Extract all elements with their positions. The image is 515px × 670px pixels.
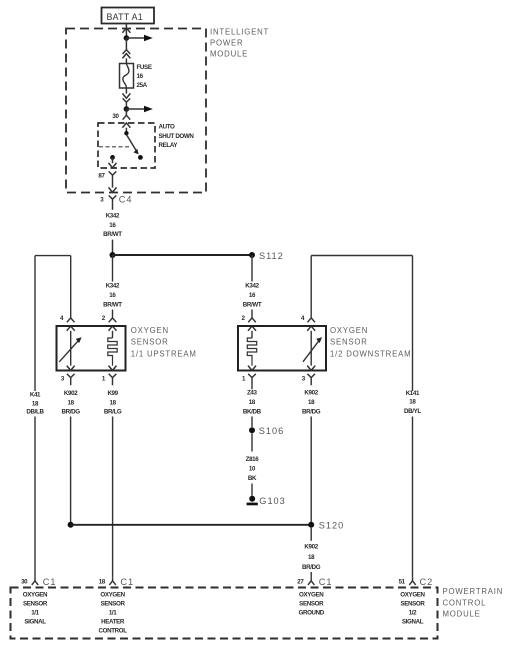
svg-text:RELAY: RELAY [159,142,179,149]
wire to pin 27 [310,572,312,577]
svg-text:SENSOR: SENSOR [131,338,169,347]
svg-text:C1: C1 [43,577,57,587]
trunk wire to splice S112 [113,254,253,256]
svg-text:C1: C1 [319,577,333,587]
PCM function oxygen sensor 1/1 heater control [99,591,128,634]
right sensor pin 2 connector [241,315,256,331]
svg-text:18: 18 [99,579,106,586]
svg-text:K902: K902 [64,390,78,397]
label OXYGEN SENSOR 1/2 DOWNSTREAM [330,326,411,358]
wire K99 vertical lower [112,417,114,578]
intelligent power module dashed box [66,29,206,193]
boundary exit arrow at C4 [109,187,117,192]
PCM pin 18 connector C1 [99,577,134,587]
fuse value label [137,64,152,89]
wire fuse to inline connector [125,88,127,94]
svg-text:DB/YL: DB/YL [404,408,421,415]
svg-text:BR/WT: BR/WT [103,301,122,308]
svg-text:G103: G103 [259,496,285,506]
wire node to inline connector [125,38,127,50]
wire label K99 18 BR/LG [104,390,122,416]
svg-text:BR/WT: BR/WT [243,301,262,308]
svg-text:HEATER: HEATER [101,618,125,625]
svg-text:BK/DB: BK/DB [243,409,262,416]
svg-text:SENSOR: SENSOR [400,600,425,607]
wire junction down to left sensor pin 2 (upper seg) [112,255,114,282]
svg-text:BR/DG: BR/DG [302,564,321,571]
svg-text:CONTROL: CONTROL [99,627,128,634]
PCM function oxygen sensor 1/2 signal [400,591,425,625]
svg-text:10: 10 [249,465,256,472]
wire BATT A1 down into module [125,24,127,39]
svg-text:27: 27 [297,579,304,586]
svg-text:SENSOR: SENSOR [23,600,48,607]
wire label Z43 18 BK/DB [243,389,262,415]
oxygen sensor 1/1 upstream box [57,326,126,371]
trunk wire to splice S120 [71,524,312,526]
wire label K342 16 BR/WT (upper) [103,212,122,238]
svg-text:Z816: Z816 [246,456,260,463]
label INTELLIGENT POWER MODULE [210,27,269,58]
svg-text:S106: S106 [259,426,284,436]
wire label K342 16 BR/WT (right lower) [243,282,262,308]
svg-text:FUSE: FUSE [137,64,152,71]
battery feed box BATT A1 [102,8,155,24]
wire K902 left to splice junction [70,417,72,525]
wire K41 vertical lower [34,417,36,578]
wire 87 contact to relay edge [112,157,114,163]
relay common terminal node [124,131,128,135]
wire label K902 18 BR/DG (ground leg) [302,544,321,571]
relay coil linkage (dashed) [99,146,130,148]
wire label K902 18 BR/DG (left) [62,390,81,416]
svg-text:BATT A1: BATT A1 [107,12,144,22]
svg-text:C4: C4 [119,194,133,204]
wire right pin 4 vertical [310,256,312,318]
svg-text:Z43: Z43 [247,389,258,396]
left sensor sensing element (variable resistor) [59,331,81,366]
relay NO contact node [138,155,143,160]
right sensor pin 3 connector [302,366,315,386]
right sensor sensing element (variable resistor) [303,331,322,366]
wire junction to relay pin 30 [125,109,127,115]
wire K41 vertical upper [34,256,36,391]
wire to lower junction [125,105,127,109]
wire S120 down [310,528,312,541]
svg-text:GROUND: GROUND [298,609,324,616]
fuse F? 25A [120,64,134,89]
svg-text:POWER: POWER [210,39,243,48]
svg-text:C1: C1 [120,577,134,587]
svg-text:K902: K902 [304,389,318,396]
svg-text:OXYGEN: OXYGEN [100,591,125,598]
wire pin 4 vertical [70,256,72,318]
svg-text:SENSOR: SENSOR [101,600,126,607]
right sensor heater element [247,331,256,366]
svg-text:1/1 UPSTREAM: 1/1 UPSTREAM [131,349,197,358]
left sensor pin 1 connector [102,366,117,386]
wire pin 87 to module boundary [112,179,114,187]
svg-text:25A: 25A [137,82,148,89]
left sensor pin 4 connector [60,315,75,331]
powertrain control module dashed box [11,588,438,639]
wire K141 vertical upper [412,256,414,392]
svg-text:OXYGEN: OXYGEN [23,591,48,598]
wire label K902 18 BR/DG (right) [302,389,321,415]
svg-text:SIGNAL: SIGNAL [402,618,424,625]
wire loop to right sensor pin 4 (horizontal) [311,255,412,257]
PCM pin 51 connector C2 [399,577,434,587]
svg-text:16: 16 [109,222,116,229]
ground G103 [247,496,258,506]
wire to ground [251,484,253,496]
oxygen sensor 1/2 downstream box [238,326,326,371]
wire seg to pin 2 [112,310,114,318]
wire label K342 16 BR/WT (left lower) [103,282,122,308]
svg-text:SIGNAL: SIGNAL [24,618,46,625]
svg-text:30: 30 [112,113,119,120]
junction node left of S112 [110,252,116,258]
svg-text:18: 18 [68,400,75,407]
svg-text:C2: C2 [420,577,434,587]
left sensor pin 3 connector [61,366,75,386]
svg-text:OXYGEN: OXYGEN [330,326,368,335]
svg-text:BR/DG: BR/DG [62,409,81,416]
svg-text:OXYGEN: OXYGEN [299,591,324,598]
wire label Z816 10 BK [246,456,260,482]
right sensor pin 1 connector [242,366,256,386]
left sensor pin 2 connector [102,315,117,331]
junction node above relay [124,106,130,112]
svg-text:K141: K141 [406,390,420,397]
svg-text:CONTROL: CONTROL [443,598,487,607]
wire K902 right to splice S120 [310,417,312,525]
branch arrow to other circuits (lower) [126,106,152,113]
svg-text:SHUT DOWN: SHUT DOWN [159,133,195,140]
svg-text:BK: BK [248,475,257,482]
svg-text:OXYGEN: OXYGEN [131,326,169,335]
wire K141 vertical lower [412,417,414,578]
PCM pin 27 connector C1 [297,577,332,587]
svg-text:16: 16 [109,292,116,299]
label POWERTRAIN CONTROL MODULE [443,587,504,618]
svg-text:POWERTRAIN: POWERTRAIN [443,587,504,596]
svg-text:OXYGEN: OXYGEN [400,591,425,598]
junction node on K902 left [68,522,74,528]
relay 87 contact node [110,155,115,160]
svg-text:16: 16 [137,73,144,80]
splice S106 [249,427,255,433]
svg-text:K342: K342 [245,282,259,289]
svg-text:30: 30 [21,579,28,586]
PCM pin 30 connector C1 [21,577,56,587]
svg-text:MODULE: MODULE [210,50,248,59]
wire Z43 to splice S106 [251,385,253,427]
branch arrow to other circuits (upper) [126,35,152,42]
left sensor heater element [108,331,117,366]
svg-text:K342: K342 [106,282,120,289]
svg-text:AUTO: AUTO [159,123,176,130]
pin 87 connector fork [109,171,117,179]
svg-text:18: 18 [308,554,315,561]
svg-text:S112: S112 [259,251,284,261]
svg-text:18: 18 [110,400,117,407]
svg-text:1/2 DOWNSTREAM: 1/2 DOWNSTREAM [330,349,411,358]
svg-text:INTELLIGENT: INTELLIGENT [210,27,269,36]
wire S112 down to right sensor pin 2 (upper seg) [251,255,253,282]
wire loop to left sensor pin 4 (horizontal) [35,255,71,257]
svg-text:18: 18 [32,401,39,408]
label OXYGEN SENSOR 1/1 UPSTREAM [131,326,197,358]
relay pin 30 connector [122,115,130,128]
svg-text:DB/LB: DB/LB [26,409,44,416]
wire label to splice junction [112,240,114,255]
auto shut down relay dashed box [98,123,155,168]
svg-text:MODULE: MODULE [443,610,481,619]
junction node below BATT A1 [124,35,130,41]
svg-text:18: 18 [249,399,256,406]
inline connector below fuse [122,93,130,105]
right sensor pin 4 connector [301,315,315,331]
svg-text:SENSOR: SENSOR [299,600,324,607]
svg-text:1/1: 1/1 [109,609,117,616]
svg-text:87: 87 [98,173,105,180]
wire S106 down [251,433,253,451]
wire C4 down [112,203,114,210]
svg-text:18: 18 [308,399,315,406]
svg-text:51: 51 [399,579,406,586]
PCM function oxygen sensor ground [298,591,324,616]
connector arrow at module boundary [122,28,130,33]
svg-text:16: 16 [249,292,256,299]
svg-text:K99: K99 [107,390,118,397]
svg-text:K41: K41 [30,391,41,398]
PCM function oxygen sensor 1/1 signal [23,591,48,625]
connector C4 fork [109,195,117,203]
svg-text:K342: K342 [106,212,120,219]
svg-text:BR/WT: BR/WT [103,231,122,238]
wire connector to fuse [125,58,127,63]
svg-text:BR/LG: BR/LG [104,409,122,416]
wire label K41 18 DB/LB [26,391,44,415]
svg-text:18: 18 [409,399,416,406]
svg-text:1/2: 1/2 [409,609,417,616]
label AUTO SHUT DOWN RELAY [159,123,195,149]
svg-text:K902: K902 [304,544,318,551]
svg-text:SENSOR: SENSOR [330,338,368,347]
splice S120 [308,522,314,528]
svg-text:S120: S120 [319,521,344,531]
relay common terminal wire [125,128,127,132]
svg-text:BR/DG: BR/DG [302,409,321,416]
relay pin 87 exit arrow [109,163,117,168]
wire label K141 18 DB/YL [404,390,421,415]
relay switch arm [126,135,138,155]
splice S112 [249,252,255,258]
wire seg to right pin 2 [251,310,253,318]
svg-text:1/1: 1/1 [31,609,39,616]
inline connector above fuse [122,50,130,59]
